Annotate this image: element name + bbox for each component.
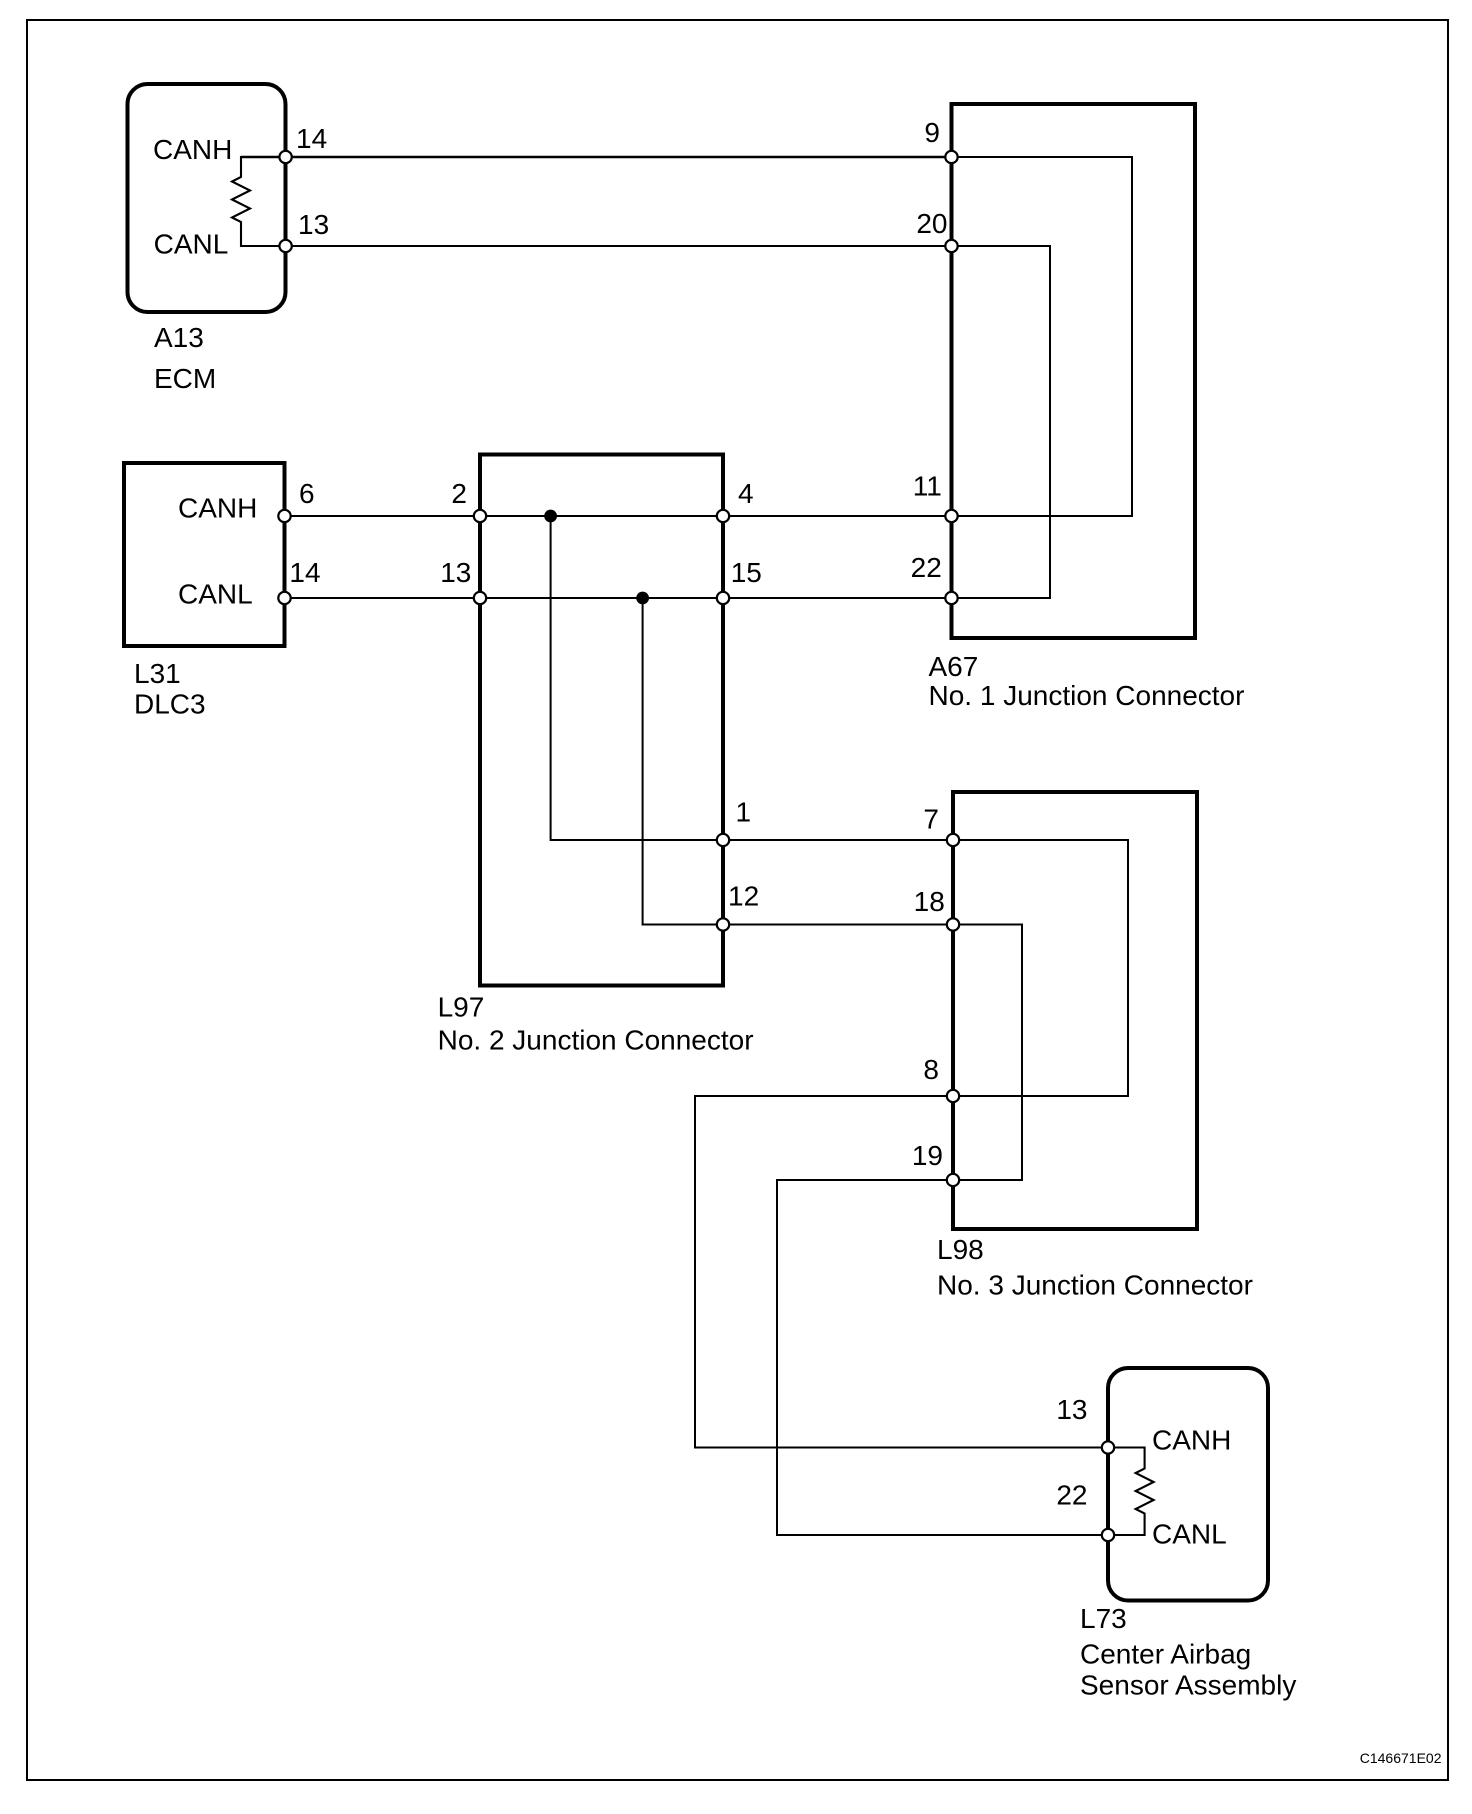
pin 18 circle on L98 (947, 918, 959, 930)
pin 1 circle on L97 (717, 834, 729, 846)
pin 13 circle on L73 (1102, 1441, 1114, 1453)
svg-text:L97: L97 (438, 992, 485, 1023)
svg-text:13: 13 (1056, 1394, 1087, 1425)
svg-text:13: 13 (440, 557, 471, 588)
svg-text:6: 6 (299, 478, 315, 509)
resistor inside A13 (241, 156, 286, 159)
pin 15 circle on L97 (717, 592, 729, 604)
pin 22 circle on L73 (1102, 1529, 1114, 1541)
svg-text:12: 12 (728, 881, 759, 912)
svg-text:CANL: CANL (1152, 1519, 1227, 1550)
svg-text:15: 15 (731, 557, 762, 588)
connector A13 ECM box (128, 84, 286, 312)
svg-text:22: 22 (1056, 1480, 1087, 1511)
pin 4 circle on L97 (717, 510, 729, 522)
svg-text:L73: L73 (1080, 1603, 1127, 1634)
svg-text:A13: A13 (154, 322, 204, 353)
svg-text:13: 13 (298, 209, 329, 240)
svg-text:14: 14 (289, 557, 320, 588)
svg-text:CANL: CANL (178, 579, 253, 610)
svg-text:19: 19 (912, 1140, 943, 1171)
svg-text:22: 22 (911, 552, 942, 583)
pin 20 circle on A67 (945, 240, 957, 252)
svg-text:CANH: CANH (1152, 1425, 1231, 1456)
pin 19 circle on L98 (947, 1174, 959, 1186)
svg-text:18: 18 (914, 886, 945, 917)
pin 2 circle on L97 (474, 510, 486, 522)
connector L97 No.2 junction box (480, 455, 723, 986)
wire branch CANH: junction in L97 down to L97 pin1 and on to L98 pin7 (551, 516, 953, 840)
wire branch CANL: junction in L97 down to L97 pin12 and on to L98 pin18 (643, 598, 953, 925)
svg-text:DLC3: DLC3 (134, 689, 206, 720)
wire internal L98: pin7 to pin8 loop (953, 840, 1128, 1096)
svg-text:8: 8 (923, 1054, 939, 1085)
svg-text:C146671E02: C146671E02 (1360, 1750, 1442, 1766)
svg-text:CANH: CANH (153, 134, 232, 165)
pin 9 circle on A67 (945, 151, 957, 163)
wire CANH: L98 pin8 left/down to L73 pin13 (695, 1096, 1108, 1448)
wire CANH row1: A13 pin14 to A67 pin9 (286, 156, 952, 159)
connector A67 No.1 junction box (952, 104, 1196, 638)
wire internal A67: pin20 to pin22 loop (952, 246, 1051, 598)
pin 13 circle on A13 (279, 240, 291, 252)
svg-text:L31: L31 (134, 658, 181, 689)
pin 8 circle on L98 (947, 1090, 959, 1102)
svg-text:1: 1 (736, 797, 752, 828)
svg-text:7: 7 (923, 804, 939, 835)
pin 12 circle on L97 (717, 918, 729, 930)
svg-text:20: 20 (916, 208, 947, 239)
pin 22 circle on A67 (945, 592, 957, 604)
connector L73 Center Airbag Sensor Assembly box (1108, 1368, 1268, 1601)
pin 13 circle on L97 (474, 592, 486, 604)
svg-text:4: 4 (738, 478, 754, 509)
svg-text:CANL: CANL (154, 229, 229, 260)
wire CANL row4: L31 pin14 through L97 (pins 13,15) to A67 pin22 (285, 597, 952, 599)
pin 7 circle on L98 (947, 834, 959, 846)
pin 14 circle on L31 (278, 592, 290, 604)
resistor inside L73 (1108, 1448, 1154, 1536)
wire CANL: L98 pin19 left/down to L73 pin22 (777, 1180, 1108, 1535)
svg-text:CANH: CANH (178, 493, 257, 524)
svg-text:11: 11 (913, 471, 942, 502)
svg-text:Center Airbag: Center Airbag (1080, 1639, 1251, 1670)
wire CANL row2: A13 pin13 to A67 pin20 (286, 245, 952, 247)
svg-text:No. 1 Junction Connector: No. 1 Junction Connector (929, 680, 1245, 711)
pin 6 circle on L31 (278, 510, 290, 522)
svg-text:14: 14 (296, 123, 327, 154)
connector L98 No.3 junction box (953, 792, 1197, 1229)
junction dot CANL in L97 (636, 592, 649, 605)
pin 14 circle on A13 (279, 151, 291, 163)
wire internal L98: pin18 to pin19 loop (953, 925, 1022, 1181)
wire internal A67: pin9 to pin11 loop (952, 157, 1133, 516)
junction dot CANH in L97 (544, 510, 557, 523)
svg-text:L98: L98 (937, 1234, 984, 1265)
svg-text:ECM: ECM (154, 363, 216, 394)
svg-text:No. 2 Junction Connector: No. 2 Junction Connector (438, 1025, 754, 1056)
connector L31 DLC3 box (124, 463, 285, 646)
svg-text:A67: A67 (929, 651, 979, 682)
svg-text:No. 3 Junction Connector: No. 3 Junction Connector (937, 1270, 1253, 1301)
pin 11 circle on A67 (945, 510, 957, 522)
wire CANH row3: L31 pin6 through L97 (pins 2,4) to A67 pin11 (285, 515, 952, 517)
svg-text:2: 2 (451, 478, 467, 509)
svg-text:Sensor Assembly: Sensor Assembly (1080, 1670, 1296, 1701)
svg-text:9: 9 (924, 117, 940, 148)
